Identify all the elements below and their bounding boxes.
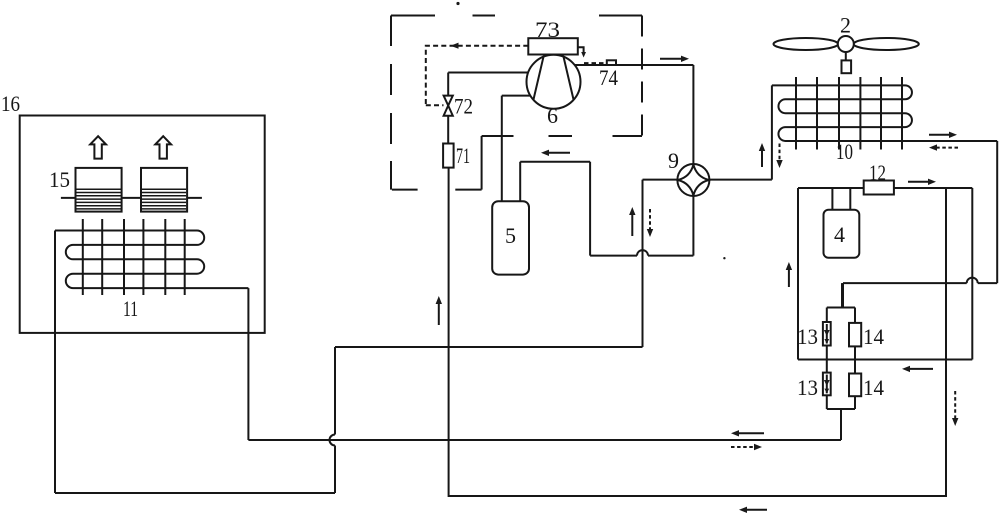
expansion valve 13a	[823, 322, 831, 346]
control arrowhead on dashed line	[451, 43, 459, 49]
wire: four-way valve left leg down	[642, 180, 644, 347]
filter 71	[443, 144, 454, 168]
accumulator tank 5	[492, 201, 529, 274]
wire: four-way valve left port	[643, 179, 678, 181]
svg-text:72: 72	[454, 94, 473, 119]
wire: tank 5 right pipe to four-way valve bottom	[520, 162, 693, 256]
svg-text:9: 9	[668, 148, 679, 173]
hollow air arrow right	[155, 136, 171, 158]
dashed arrow left below coil 10 outlet	[935, 147, 958, 149]
wire: y=283 horizontal with hop over x=972	[843, 283, 997, 307]
arrow right above coil 10 outlet	[929, 134, 951, 136]
hollow air arrow left	[90, 136, 106, 158]
dashed link to sensor 74	[584, 62, 607, 64]
svg-text:73: 73	[535, 17, 560, 42]
arrow right on discharge line	[660, 58, 683, 60]
coil 11 fins	[83, 219, 185, 295]
component 12	[864, 181, 894, 195]
dashed arrow down right of four-way valve leg	[649, 209, 651, 230]
expansion valve 13b	[823, 373, 831, 396]
pipe through blocks 15	[61, 197, 202, 199]
receiver tank 4	[824, 210, 860, 258]
arrow up left of filter 71 line	[438, 302, 440, 325]
wire: mid line y=359.5	[798, 359, 972, 361]
svg-text:74: 74	[599, 65, 618, 90]
svg-text:12: 12	[869, 160, 886, 185]
arrow left above y=440 line	[737, 432, 764, 434]
wire: bottom-left horizontal run	[55, 492, 335, 494]
expansion valve 72	[444, 96, 453, 116]
arrow right after component 12	[908, 181, 930, 183]
sensor 74	[607, 60, 616, 65]
svg-text:14: 14	[863, 324, 884, 349]
wire: riser x=335 with hop over y=440 line	[330, 347, 336, 493]
box 16 enclosure	[20, 116, 265, 333]
wire: four-way valve right port to coil 10	[709, 85, 772, 179]
arrow left above tank 5 pipe	[547, 152, 570, 154]
wire: y=440 horizontal to expansion manifold	[248, 439, 841, 441]
svg-text:13: 13	[797, 375, 818, 400]
stray dot	[723, 257, 725, 259]
arrow left below bottom line	[745, 509, 767, 511]
wire: valve 72 line to compressor	[448, 73, 528, 144]
wire: coil 11 left leg down out of box 16	[54, 231, 56, 494]
discharge line to four-way valve	[575, 65, 694, 164]
arrow up left of four-way valve leg	[631, 213, 633, 236]
dashed arrow down x=955	[954, 391, 956, 419]
arrow left below mid line	[908, 368, 933, 370]
wire: coil 11 right leg down out of box 16	[247, 288, 249, 440]
coil 11 serpentine pipe	[55, 231, 248, 289]
expansion manifold rails	[827, 308, 855, 410]
flow arrows	[436, 56, 959, 513]
solenoid valve 14b	[849, 374, 861, 397]
svg-text:71: 71	[456, 143, 470, 168]
svg-text:4: 4	[834, 222, 845, 247]
wire: manifold feed	[841, 283, 843, 307]
dashed arrow down right of coil 10 inlet	[779, 144, 781, 162]
svg-text:2: 2	[840, 13, 851, 38]
sensor hook from 73	[578, 47, 584, 52]
heat-storage block 15a	[76, 168, 122, 212]
suction line: tank 5 to compressor	[502, 96, 530, 202]
svg-text:16: 16	[1, 91, 20, 116]
svg-text:10: 10	[836, 139, 853, 164]
wire: manifold outlet	[840, 409, 842, 440]
arrow up left of coil 10 inlet	[761, 149, 763, 167]
dashed arrow right below y=440 line	[731, 446, 756, 448]
wire: y=188 header through component 12	[798, 188, 972, 360]
svg-text:6: 6	[547, 103, 558, 128]
compressor 6	[527, 55, 581, 109]
wire: bottom loop from filter 71	[449, 168, 946, 496]
coil 10 fins	[796, 77, 902, 150]
wire hop at (642.5,255.6)	[637, 250, 648, 256]
heat-storage block 15b	[141, 168, 187, 212]
wire: coil 10 outlet down right side	[996, 141, 998, 283]
controller 73	[528, 38, 578, 54]
solenoid valve 14a	[849, 323, 861, 347]
svg-text:14: 14	[863, 375, 884, 400]
stray mark top	[456, 2, 459, 5]
coil 10 serpentine pipe	[772, 85, 997, 141]
svg-text:11: 11	[123, 296, 138, 321]
wire hop at (972.2,283.1)	[967, 278, 978, 284]
fan 2	[774, 36, 919, 73]
dashed control line 73 to 72	[426, 46, 529, 105]
dashed enclosure (defrost control unit)	[391, 16, 642, 190]
svg-text:15: 15	[49, 167, 70, 192]
wire: horizontal y=347 to four-way valve leg	[335, 346, 643, 348]
wire: receiver 4 top pipes	[832, 188, 850, 210]
svg-text:13: 13	[797, 324, 818, 349]
four-way valve 9	[677, 164, 709, 196]
arrow up left of x=798 riser	[788, 268, 790, 287]
svg-text:5: 5	[505, 223, 516, 248]
